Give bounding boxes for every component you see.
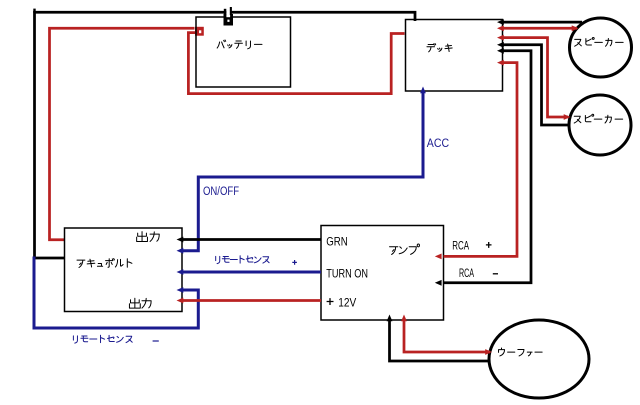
label ACC xyxy=(427,137,449,150)
label TURN ON xyxy=(326,267,368,280)
svg-text:GRN: GRN xyxy=(326,235,347,248)
label 出力 (top output) xyxy=(137,232,160,242)
speaker 2 circle xyxy=(569,95,631,155)
wire: accuvolt output to amp +12V (red) xyxy=(177,298,322,304)
deck box xyxy=(406,20,503,92)
label RCA + xyxy=(452,240,491,253)
svg-text:RCA: RCA xyxy=(459,267,474,280)
label バッテリー xyxy=(217,40,262,49)
wire: amp to woofer - (black) xyxy=(387,315,489,362)
wire: RCA - deck to amp (black) xyxy=(435,48,531,286)
label RCA - xyxy=(459,267,498,280)
speaker 1 circle xyxy=(570,18,632,77)
accuvolt box xyxy=(65,228,183,312)
svg-text:RCA: RCA xyxy=(452,240,469,253)
label 出力 (bottom output) xyxy=(129,298,151,308)
battery box xyxy=(196,17,291,87)
label リモートセンス + xyxy=(216,256,297,265)
label スピーカー (speaker 1) xyxy=(575,37,623,46)
wire: battery to deck power (red) xyxy=(188,33,404,94)
wire: amp to woofer + (red) xyxy=(401,315,492,355)
woofer circle xyxy=(489,320,589,398)
svg-text:TURN ON: TURN ON xyxy=(326,267,368,280)
wire: RCA + deck to amp (red) xyxy=(435,60,517,260)
wire: battery positive feed to accuvolt (red) xyxy=(50,28,195,240)
label デッキ xyxy=(427,43,452,51)
wire: accuvolt output to amp GRN (black) xyxy=(177,237,322,243)
wire: remote sense + accuvolt to amp TURN ON (blue) xyxy=(177,269,322,275)
wire: deck to speaker1 - (red) xyxy=(497,25,579,31)
svg-text:ON/OFF: ON/OFF xyxy=(203,185,239,198)
battery top connector (fuse clip) xyxy=(224,7,234,26)
label スピーカー (speaker 2) xyxy=(574,114,622,123)
label ON/OFF xyxy=(203,185,239,198)
wire: deck to speaker1 + (black) xyxy=(497,19,582,25)
wire: main battery negative/ground bus (black) xyxy=(35,9,416,258)
wire: deck to speaker2 + (black) xyxy=(497,42,569,125)
label アンプ xyxy=(390,244,420,254)
svg-text:ACC: ACC xyxy=(427,137,449,150)
label アキュボルト xyxy=(77,259,132,268)
amp box xyxy=(321,226,444,321)
wire: deck to speaker2 - (red) xyxy=(497,35,571,120)
label ウーファー xyxy=(499,348,543,356)
wire: remote sense - loop to ground bus (blue) xyxy=(34,257,198,329)
label + 12V xyxy=(327,297,357,310)
svg-text:12V: 12V xyxy=(338,297,357,310)
label リモートセンス - xyxy=(73,335,158,343)
wire: ACC deck to accuvolt ON/OFF (blue) xyxy=(177,87,426,254)
label GRN xyxy=(326,235,347,248)
battery + terminal (red square with hole) xyxy=(195,27,204,36)
